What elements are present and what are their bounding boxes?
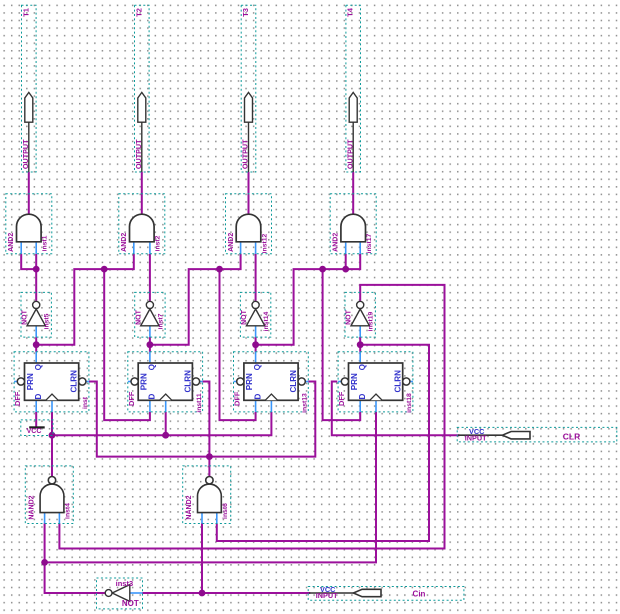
svg-text:inst12: inst12 bbox=[261, 233, 268, 253]
svg-text:T4: T4 bbox=[346, 7, 355, 17]
svg-text:INPUT: INPUT bbox=[465, 433, 487, 442]
svg-text:PRN: PRN bbox=[26, 373, 35, 390]
svg-text:CLRN: CLRN bbox=[70, 370, 79, 393]
svg-text:inst19: inst19 bbox=[368, 311, 375, 331]
svg-text:Q: Q bbox=[358, 364, 367, 370]
svg-text:Q: Q bbox=[34, 364, 43, 370]
svg-text:inst2: inst2 bbox=[155, 235, 162, 251]
svg-text:CLRN: CLRN bbox=[289, 370, 298, 393]
svg-text:NOT: NOT bbox=[22, 309, 29, 325]
svg-text:inst18: inst18 bbox=[406, 393, 413, 413]
svg-text:PRN: PRN bbox=[245, 373, 254, 390]
svg-text:inst14: inst14 bbox=[263, 311, 270, 331]
svg-text:DFF: DFF bbox=[233, 391, 242, 406]
svg-text:T2: T2 bbox=[134, 8, 143, 17]
svg-text:PRN: PRN bbox=[350, 373, 359, 390]
svg-text:PRN: PRN bbox=[140, 373, 149, 390]
svg-text:AND2: AND2 bbox=[8, 233, 15, 252]
svg-text:AND2: AND2 bbox=[333, 233, 340, 252]
svg-text:VCC: VCC bbox=[27, 428, 42, 435]
svg-text:inst13: inst13 bbox=[302, 393, 309, 413]
svg-text:inst5: inst5 bbox=[44, 313, 51, 329]
svg-text:CLRN: CLRN bbox=[183, 370, 192, 393]
svg-text:DFF: DFF bbox=[127, 391, 136, 406]
svg-text:D: D bbox=[34, 394, 43, 400]
svg-text:NOT: NOT bbox=[241, 309, 248, 325]
svg-text:inst3: inst3 bbox=[116, 579, 134, 588]
svg-text:NAND2: NAND2 bbox=[186, 495, 193, 519]
svg-text:inst: inst bbox=[82, 396, 89, 409]
svg-text:NOT: NOT bbox=[346, 309, 353, 325]
svg-text:NOT: NOT bbox=[135, 309, 142, 325]
svg-text:OUTPUT: OUTPUT bbox=[241, 139, 250, 169]
svg-text:DFF: DFF bbox=[337, 391, 346, 406]
svg-text:T3: T3 bbox=[241, 8, 250, 17]
svg-text:inst1: inst1 bbox=[42, 235, 49, 251]
svg-text:OUTPUT: OUTPUT bbox=[345, 139, 354, 169]
svg-text:OUTPUT: OUTPUT bbox=[21, 139, 30, 169]
svg-text:AND2: AND2 bbox=[121, 233, 128, 252]
svg-text:inst4: inst4 bbox=[65, 503, 72, 519]
svg-text:inst11: inst11 bbox=[196, 393, 203, 412]
svg-text:inst7: inst7 bbox=[157, 313, 164, 329]
svg-text:AND2: AND2 bbox=[228, 233, 235, 252]
svg-text:inst17: inst17 bbox=[366, 233, 373, 253]
svg-text:NOT: NOT bbox=[122, 599, 139, 608]
svg-text:inst6: inst6 bbox=[222, 503, 229, 519]
svg-text:OUTPUT: OUTPUT bbox=[134, 139, 143, 169]
svg-text:INPUT: INPUT bbox=[316, 591, 338, 600]
svg-text:Q: Q bbox=[253, 364, 262, 370]
svg-text:CLRN: CLRN bbox=[394, 370, 403, 393]
svg-text:T1: T1 bbox=[21, 8, 30, 17]
svg-text:CLR: CLR bbox=[563, 431, 580, 441]
svg-text:Cin: Cin bbox=[413, 590, 426, 599]
svg-text:NAND2: NAND2 bbox=[29, 495, 36, 519]
svg-text:Q: Q bbox=[148, 364, 157, 370]
svg-text:D: D bbox=[358, 394, 367, 400]
svg-text:D: D bbox=[253, 394, 262, 400]
svg-text:D: D bbox=[148, 394, 157, 400]
svg-text:DFF: DFF bbox=[13, 391, 22, 406]
